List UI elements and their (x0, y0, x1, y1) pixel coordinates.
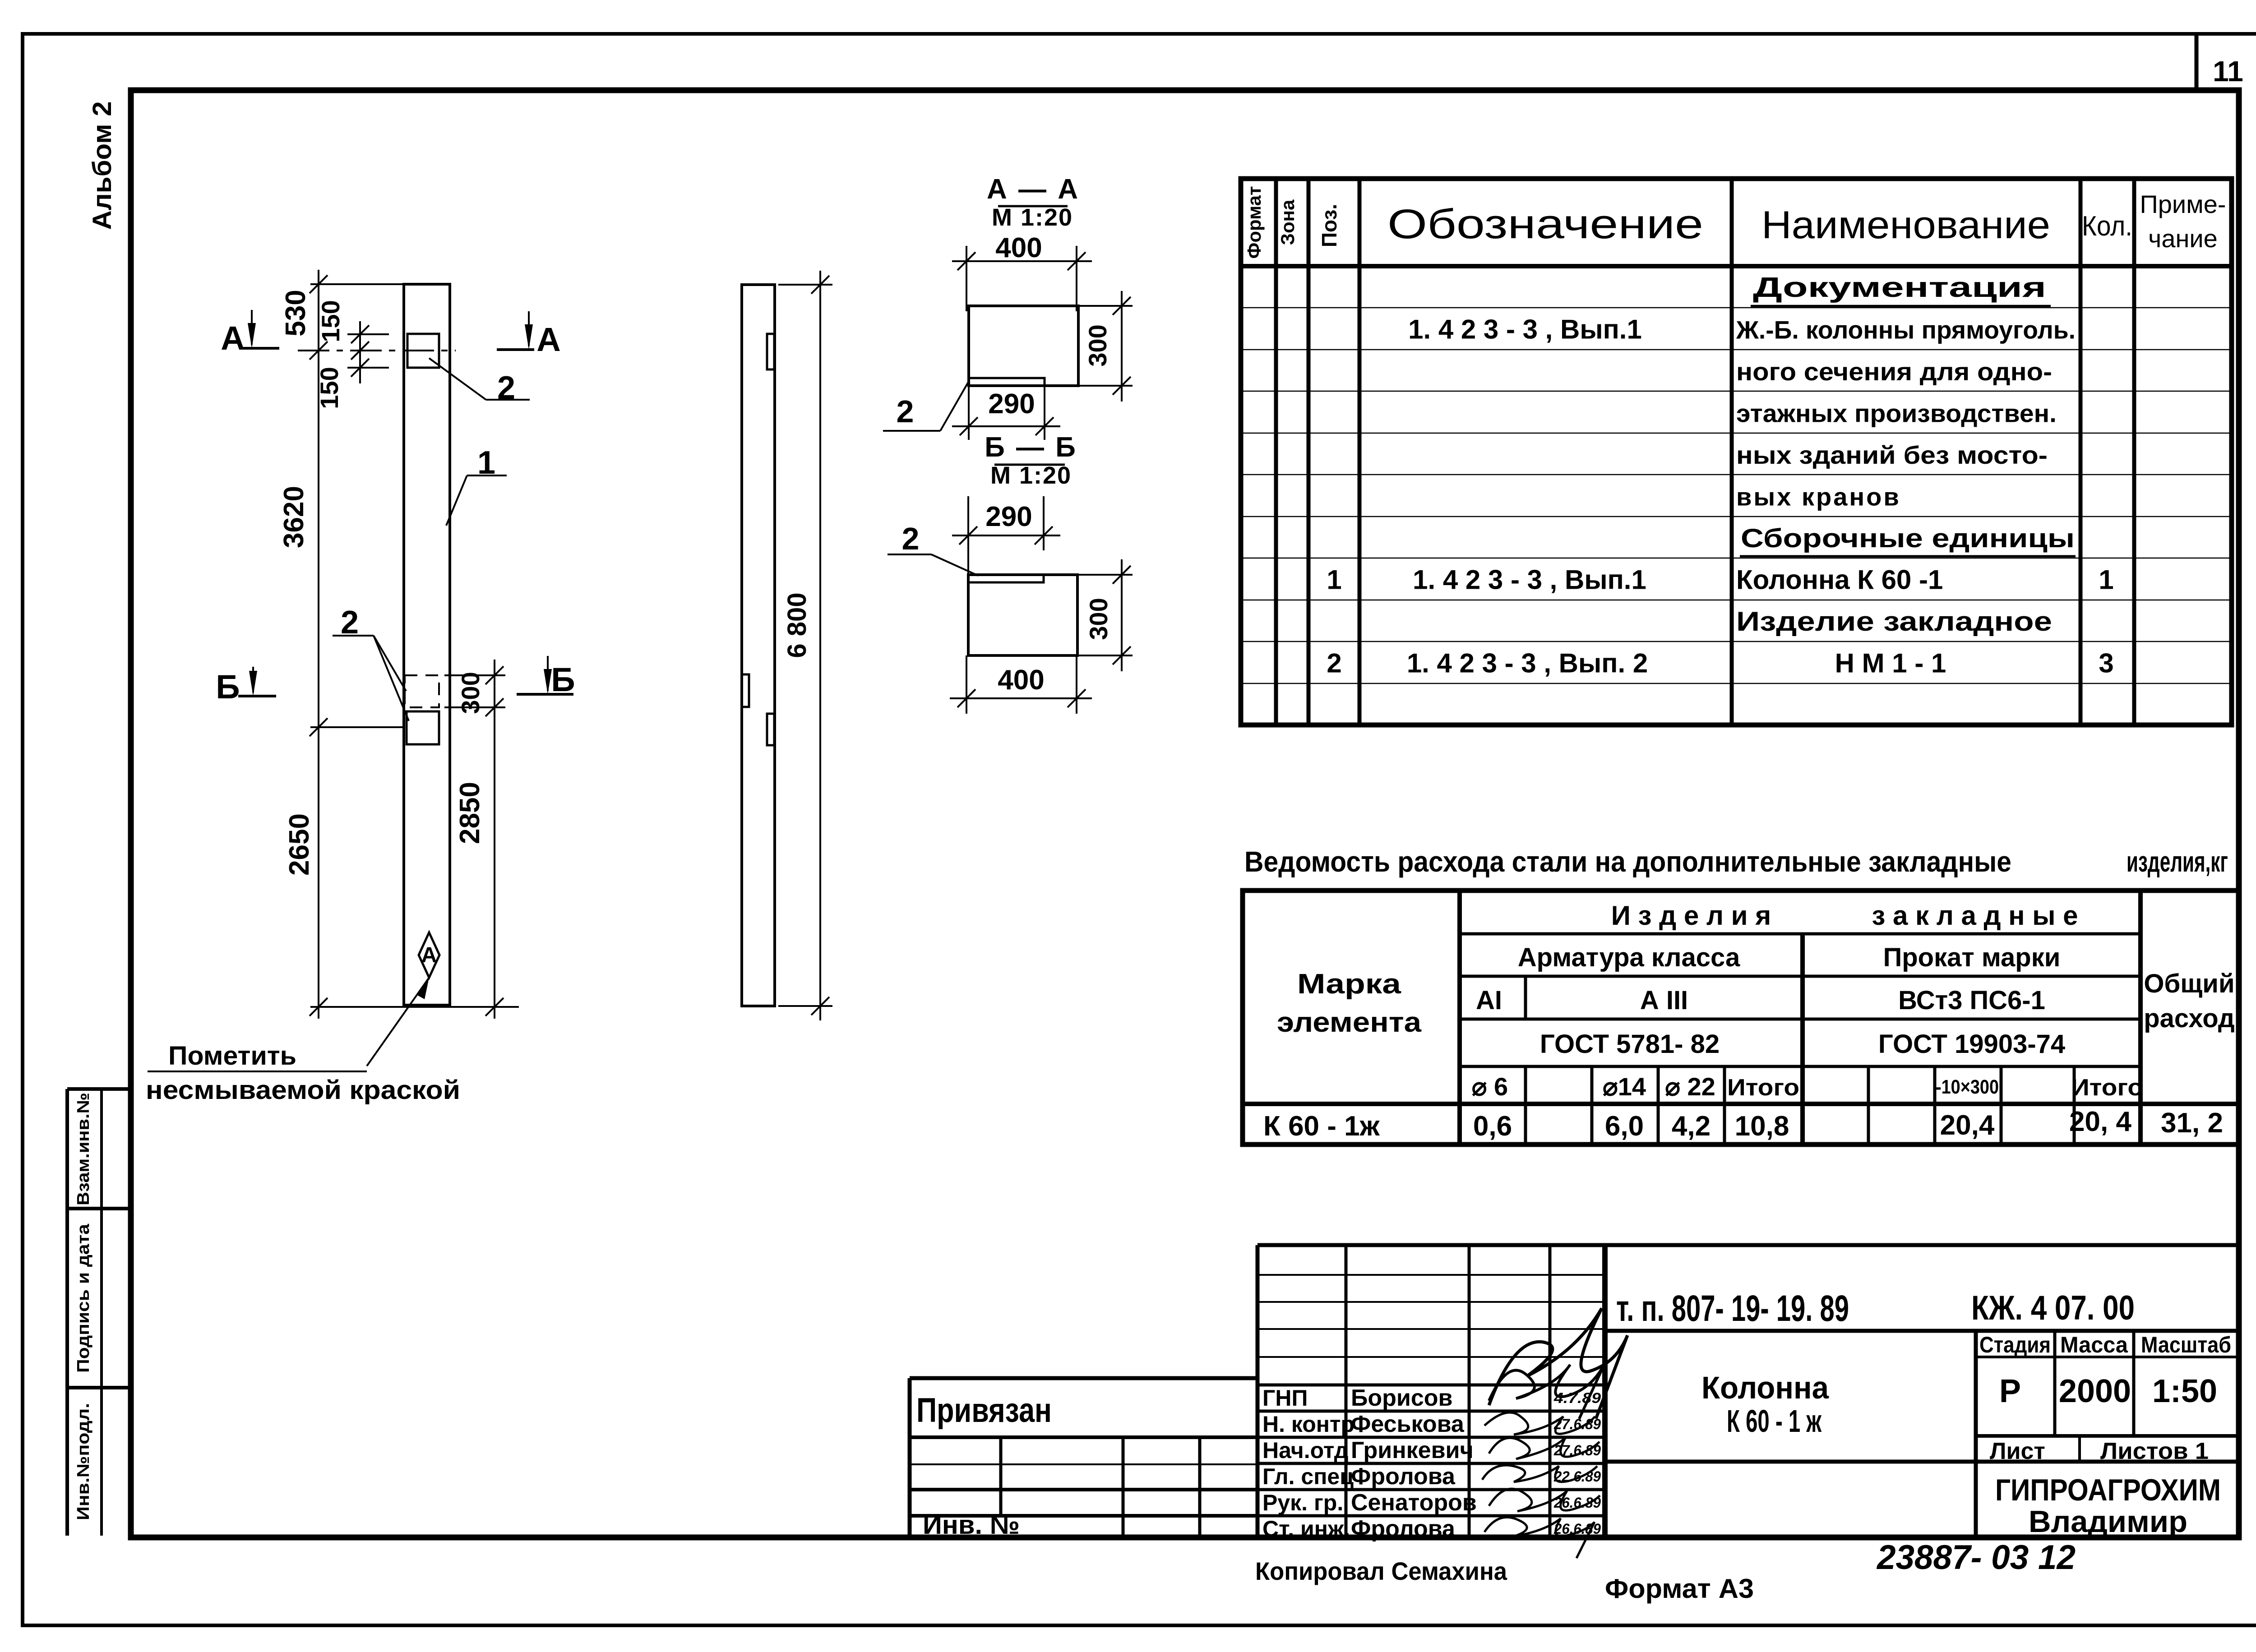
steel table row lines (1460, 932, 2140, 936)
svg-text:300: 300 (1083, 324, 1112, 366)
svg-text:Колонна: Колонна (1701, 1370, 1829, 1405)
svg-text:чание: чание (2148, 224, 2218, 253)
svg-text:1:50: 1:50 (2152, 1373, 2217, 1409)
svg-text:4,2: 4,2 (1672, 1111, 1710, 1142)
section mark A left (251, 310, 253, 345)
section B-B dim 300 (1077, 574, 1133, 576)
svg-text:Гл. спец: Гл. спец (1262, 1464, 1354, 1489)
svg-text:ных зданий без мосто-: ных зданий без мосто- (1736, 441, 2048, 469)
svg-text:Приме-: Приме- (2140, 190, 2226, 218)
svg-text:⌀ 6: ⌀ 6 (1472, 1072, 1508, 1101)
svg-text:изделия,кг: изделия,кг (2127, 845, 2228, 878)
svg-text:1: 1 (477, 445, 495, 481)
svg-text:530: 530 (280, 290, 311, 336)
svg-text:Владимир: Владимир (2029, 1504, 2187, 1539)
svg-text:Арматура класса: Арматура класса (1518, 943, 1740, 972)
spec table frame (1241, 179, 2232, 725)
svg-text:Н. контр: Н. контр (1262, 1412, 1355, 1437)
svg-text:2: 2 (902, 521, 920, 556)
svg-text:Прокат марки: Прокат марки (1883, 943, 2061, 972)
svg-text:И з д е л и я: И з д е л и я (1611, 900, 1771, 931)
svg-text:Общий: Общий (2144, 969, 2234, 998)
svg-text:А III: А III (1640, 986, 1688, 1015)
svg-text:Копировал Семахина: Копировал Семахина (1255, 1557, 1507, 1585)
mark rhombus A (419, 932, 439, 978)
svg-text:Стадия: Стадия (1979, 1332, 2051, 1357)
embedded plate 2 top (front view) (407, 334, 439, 368)
svg-text:Формат А3: Формат А3 (1605, 1574, 1754, 1604)
svg-text:Б — Б: Б — Б (985, 432, 1077, 463)
svg-text:10,8: 10,8 (1735, 1111, 1789, 1142)
svg-text:К 60 - 1ж: К 60 - 1ж (1263, 1111, 1380, 1142)
svg-text:Обозначение: Обозначение (1387, 201, 1703, 247)
svg-text:150: 150 (316, 300, 345, 342)
svg-text:вых кранов: вых кранов (1736, 483, 1901, 511)
sheet number divider (2195, 35, 2199, 91)
svg-text:несмываемой краской: несмываемой краской (146, 1075, 460, 1105)
leader 1 column (467, 475, 507, 476)
svg-text:А: А (421, 943, 437, 967)
svg-text:1: 1 (1327, 564, 1341, 595)
svg-text:А: А (221, 319, 245, 357)
section A-A plate 2 (969, 378, 1045, 386)
leader 2 top plate (486, 399, 530, 401)
svg-text:Итого: Итого (1727, 1075, 1799, 1101)
svg-text:з а к л а д н ы е: з а к л а д н ы е (1872, 900, 2078, 931)
svg-text:Р: Р (1999, 1373, 2021, 1409)
plate edge lower right (side view) (767, 714, 774, 745)
dimension line 6800 (819, 271, 821, 1020)
svg-text:2000: 2000 (2059, 1373, 2131, 1409)
svg-text:3620: 3620 (278, 486, 310, 548)
svg-text:2650: 2650 (284, 813, 315, 876)
signature table frame (1257, 1243, 2239, 1247)
svg-text:ГНП: ГНП (1262, 1385, 1308, 1411)
svg-text:К 60 - 1 ж: К 60 - 1 ж (1727, 1403, 1822, 1439)
section A-A outline (969, 306, 1078, 386)
plate edge top (side view) (767, 334, 774, 369)
svg-text:Наименование: Наименование (1761, 203, 2050, 247)
svg-text:Зона: Зона (1277, 199, 1298, 245)
svg-text:Рук. гр.: Рук. гр. (1262, 1490, 1343, 1515)
svg-text:1. 4 2 3 - 3 , Вып. 2: 1. 4 2 3 - 3 , Вып. 2 (1407, 648, 1648, 678)
svg-text:Феськова: Феськова (1351, 1411, 1465, 1437)
spec table row lines (1241, 307, 2232, 309)
svg-text:Листов 1: Листов 1 (2100, 1438, 2209, 1464)
list listov row (1976, 1434, 2239, 1438)
title block frame (1605, 1329, 2239, 1333)
svg-text:150: 150 (315, 367, 343, 409)
svg-text:Гринкевич: Гринкевич (1351, 1437, 1474, 1463)
svg-text:2: 2 (497, 370, 515, 406)
svg-text:ГОСТ 19903-74: ГОСТ 19903-74 (1878, 1029, 2065, 1059)
svg-text:Н М 1 - 1: Н М 1 - 1 (1835, 648, 1946, 678)
svg-text:КЖ. 4 07. 00: КЖ. 4 07. 00 (1971, 1289, 2135, 1327)
svg-text:2850: 2850 (454, 782, 485, 844)
leader 2 lower plates (333, 635, 374, 637)
svg-text:2: 2 (341, 605, 359, 641)
svg-text:1. 4 2 3 - 3 , Вып.1: 1. 4 2 3 - 3 , Вып.1 (1408, 314, 1642, 345)
section mark B right (547, 656, 549, 691)
svg-text:Масштаб: Масштаб (2141, 1332, 2231, 1357)
svg-text:ВСт3 ПС6-1: ВСт3 ПС6-1 (1898, 986, 2045, 1015)
svg-text:Лист: Лист (1990, 1438, 2045, 1464)
svg-text:ного сечения для одно-: ного сечения для одно- (1736, 357, 2052, 386)
section B-B outline (968, 575, 1077, 655)
svg-text:1. 4 2 3 - 3 , Вып.1: 1. 4 2 3 - 3 , Вып.1 (1413, 564, 1646, 595)
svg-text:6 800: 6 800 (782, 592, 812, 658)
extension line column top (310, 283, 405, 285)
svg-text:расход: расход (2144, 1004, 2234, 1033)
svg-text:М 1:20: М 1:20 (992, 204, 1073, 231)
extension line at 3620-2650 boundary (310, 726, 405, 728)
svg-text:290: 290 (988, 388, 1035, 420)
extension lines 6800 (778, 284, 832, 286)
svg-text:3: 3 (2099, 648, 2113, 678)
svg-text:31, 2: 31, 2 (2161, 1107, 2223, 1139)
svg-text:А: А (536, 321, 560, 358)
svg-text:0,6: 0,6 (1473, 1111, 1512, 1142)
svg-text:⌀14: ⌀14 (1603, 1072, 1646, 1101)
embedded plate 2 dashed (front view) (405, 675, 439, 707)
plate edge middle left (side view) (742, 674, 749, 707)
svg-text:Масса: Масса (2060, 1332, 2128, 1357)
svg-text:Итого: Итого (2071, 1075, 2143, 1101)
svg-text:Ж.-Б. колонны прямоуголь.: Ж.-Б. колонны прямоуголь. (1736, 316, 2076, 344)
svg-text:Ведомость расхода стали на доп: Ведомость расхода стали на дополнительны… (1244, 845, 2011, 878)
svg-text:20, 4: 20, 4 (2069, 1106, 2131, 1137)
privjazan block verticals (999, 1437, 1003, 1516)
dimension line 530-3620-2650 (318, 270, 319, 1019)
section B-B plate 2 (968, 575, 1044, 582)
column K60-1 front view outline (404, 284, 450, 1005)
svg-text:2: 2 (1327, 648, 1341, 678)
svg-text:11: 11 (2213, 55, 2243, 88)
svg-text:Марка: Марка (1297, 969, 1401, 1000)
svg-text:Изделие закладное: Изделие закладное (1736, 606, 2052, 637)
steel table frame (1243, 891, 2238, 1144)
extension line column bottom (310, 1006, 519, 1008)
svg-text:Документация: Документация (1753, 272, 2046, 303)
svg-text:Фролова: Фролова (1351, 1463, 1456, 1490)
svg-text:АI: АI (1476, 986, 1502, 1015)
svg-text:Сборочные единицы: Сборочные единицы (1741, 524, 2075, 553)
section mark A right (528, 311, 530, 346)
svg-text:Фролова: Фролова (1351, 1516, 1456, 1542)
svg-text:Инв.№подл.: Инв.№подл. (74, 1403, 93, 1520)
privjazan block frame (910, 1376, 1257, 1380)
svg-text:Сенаторов: Сенаторов (1351, 1490, 1477, 1516)
svg-text:ГОСТ 5781- 82: ГОСТ 5781- 82 (1540, 1029, 1720, 1059)
svg-text:2: 2 (897, 394, 914, 429)
cut line A-A centerline (298, 350, 456, 351)
svg-text:Взам.инв.№: Взам.инв.№ (74, 1093, 93, 1205)
svg-text:300: 300 (1084, 598, 1113, 640)
svg-text:20,4: 20,4 (1940, 1110, 1995, 1141)
svg-text:400: 400 (998, 664, 1044, 696)
svg-text:-10×300: -10×300 (1936, 1076, 1999, 1098)
svg-text:Ст. инж.: Ст. инж. (1262, 1516, 1350, 1541)
stadija massa masshtab header (1976, 1356, 2239, 1358)
signature table empty row lines (1257, 1274, 1605, 1276)
dimension 150 150 at top plate (359, 321, 361, 383)
svg-text:Инв. №: Инв. № (923, 1510, 1020, 1540)
svg-text:этажных производствен.: этажных производствен. (1736, 399, 2057, 428)
svg-text:Поз.: Поз. (1318, 204, 1341, 247)
svg-text:Пометить: Пометить (168, 1041, 296, 1071)
svg-text:ГИПРОАГРОХИМ: ГИПРОАГРОХИМ (1995, 1473, 2221, 1507)
embedded plate 2 solid lower (front view) (407, 711, 439, 744)
svg-text:Кол.: Кол. (2082, 211, 2132, 242)
svg-text:Б: Б (551, 661, 575, 698)
svg-text:Формат: Формат (1244, 186, 1265, 258)
svg-text:элемента: элемента (1277, 1007, 1422, 1038)
svg-text:Борисов: Борисов (1351, 1385, 1453, 1411)
svg-text:⌀ 22: ⌀ 22 (1665, 1072, 1715, 1101)
leader to paint note (367, 978, 429, 1066)
svg-text:Колонна К 60 -1: Колонна К 60 -1 (1736, 564, 1943, 595)
svg-text:М 1:20: М 1:20 (990, 462, 1072, 489)
svg-text:А — А: А — А (987, 174, 1080, 205)
signature table row lines (1257, 1384, 1605, 1387)
svg-text:290: 290 (985, 501, 1032, 532)
svg-text:Альбом 2: Альбом 2 (88, 102, 117, 230)
svg-text:300: 300 (456, 672, 485, 714)
svg-text:Привязан: Привязан (916, 1391, 1052, 1430)
section A-A dim 300 (1078, 305, 1133, 307)
svg-text:6,0: 6,0 (1605, 1111, 1644, 1142)
svg-text:Б: Б (216, 668, 240, 706)
svg-text:23887- 03 12: 23887- 03 12 (1876, 1538, 2076, 1577)
left stamp strip frame (67, 1087, 131, 1091)
svg-text:400: 400 (995, 232, 1042, 263)
svg-text:1: 1 (2099, 564, 2113, 595)
signature scribbles (1489, 1308, 1627, 1419)
column side view outline (742, 285, 775, 1006)
svg-text:Подпись и дата: Подпись и дата (74, 1223, 93, 1373)
dimension 300 and 2850 line (494, 660, 495, 1019)
section mark B left (252, 667, 254, 692)
svg-text:т. п. 807- 19- 19. 89: т. п. 807- 19- 19. 89 (1616, 1288, 1849, 1329)
svg-text:Нач.отд: Нач.отд (1262, 1438, 1348, 1463)
